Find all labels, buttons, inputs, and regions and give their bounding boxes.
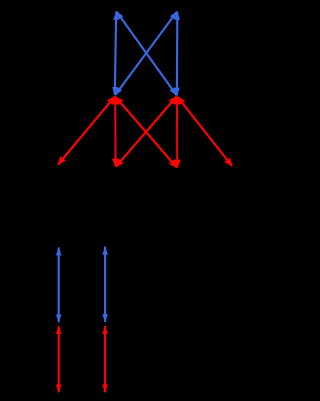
red legend vertical arrow right [104, 326, 106, 392]
blue vertical arrow right (top layer) [176, 12, 179, 96]
blue diagonal arrow TR-ML [115, 12, 177, 96]
red arrow MR to P4 [178, 97, 233, 166]
blue diagonal arrow TL-MR [117, 12, 177, 96]
red legend vertical arrow left [58, 326, 60, 392]
blue legend vertical arrow left [58, 248, 60, 323]
red arrow ML to P3 [116, 97, 177, 168]
blue legend vertical arrow right [104, 247, 106, 322]
red arrow ML to P1 [58, 97, 115, 165]
red vertical arrow MR to P3 [176, 97, 178, 168]
blue vertical arrow left (top layer) [115, 12, 116, 95]
red vertical arrow ML to P2 [114, 97, 116, 167]
red arrow MR to P2 [116, 97, 177, 167]
